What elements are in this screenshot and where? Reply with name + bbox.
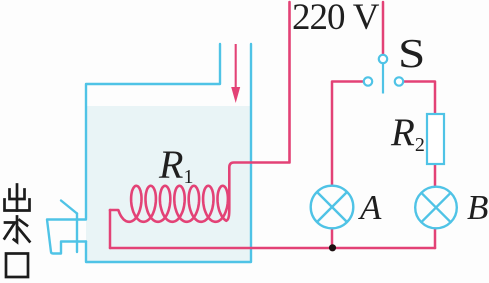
label 220 V [292,0,378,39]
resistor R2 [427,114,444,164]
label R2 [391,110,425,157]
water fill [86,106,251,262]
label R1 [159,141,193,189]
label 口 (outlet char 3) [6,254,28,278]
wire lamp A bottom [331,229,334,249]
label B [467,188,488,228]
heater coil R1 with wire to 220V left terminal [110,2,290,222]
label 水 (outlet char 2) [5,217,30,243]
tap body [47,220,86,254]
tank outline [86,44,220,219]
tap handle [61,201,77,214]
tap stem [76,214,78,253]
wire 220V right terminal to switch [382,2,385,55]
wire switch right contact to R2 [404,82,436,115]
wire R2 to lamp B [434,164,437,187]
label A [360,188,381,228]
wire lamp B bottom [434,229,437,249]
lamp B [415,187,457,229]
bottom wire [110,247,435,250]
wire lamp A top to switch left contact [332,82,364,186]
lamp A [311,186,354,229]
label 出 (outlet char 1) [5,185,30,211]
tank wall lower + bottom + right wall [86,44,251,262]
label S [398,29,425,77]
wire coil-left down to bottom wire [109,210,112,248]
switch S [364,55,403,94]
inlet arrow [231,44,240,103]
junction node [329,244,336,251]
